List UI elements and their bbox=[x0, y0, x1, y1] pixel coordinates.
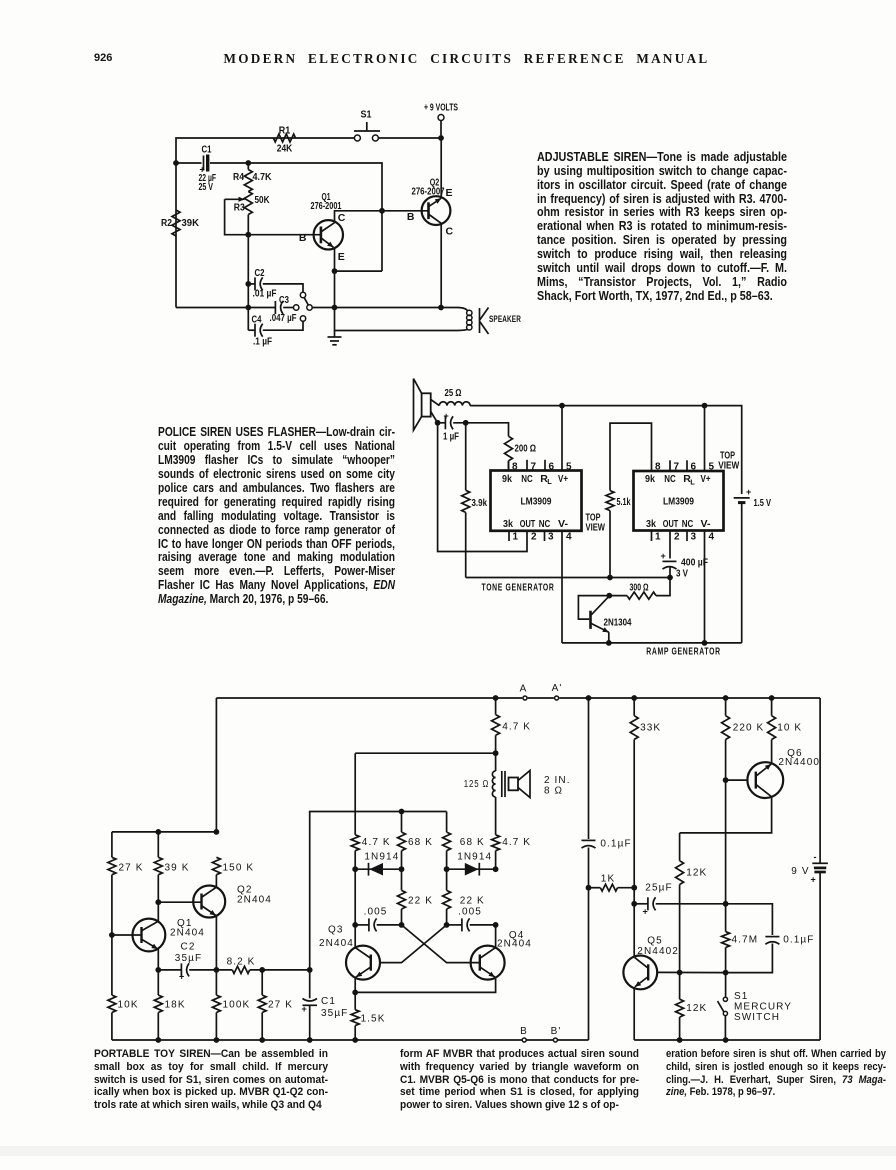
svg-text:1: 1 bbox=[513, 532, 519, 543]
svg-text:18K: 18K bbox=[165, 1000, 186, 1011]
wire cross coupling A bbox=[402, 925, 480, 963]
svg-text:+: + bbox=[302, 1004, 307, 1014]
svg-text:9 V: 9 V bbox=[791, 866, 809, 877]
U2 pin 6 bbox=[686, 460, 688, 471]
svg-text:MERCURY: MERCURY bbox=[734, 1002, 792, 1013]
svg-text:+: + bbox=[643, 907, 648, 917]
wire top rail left segment with left drop bbox=[378, 137, 441, 139]
U1 pin 4 bbox=[561, 531, 563, 643]
svg-text:-: - bbox=[814, 852, 817, 862]
svg-text:22 K: 22 K bbox=[460, 896, 485, 907]
transformer 125 ohm coil bbox=[495, 753, 497, 771]
svg-text:A': A' bbox=[552, 683, 563, 694]
wire speaker top rail bbox=[312, 307, 458, 309]
svg-text:2N404: 2N404 bbox=[237, 895, 272, 906]
wire 300 ohm to base loop bbox=[609, 595, 627, 597]
svg-text:33K: 33K bbox=[640, 723, 661, 734]
svg-text:V-: V- bbox=[558, 518, 569, 530]
svg-text:4.7 K: 4.7 K bbox=[502, 837, 531, 848]
svg-text:276-2007: 276-2007 bbox=[412, 185, 445, 197]
ground bbox=[334, 331, 336, 338]
svg-text:B: B bbox=[520, 1026, 528, 1037]
svg-text:+: + bbox=[179, 972, 184, 982]
svg-text:B: B bbox=[407, 211, 415, 223]
wire speaker bottom rail bbox=[335, 308, 459, 331]
svg-text:S1: S1 bbox=[361, 109, 372, 121]
resistor 3.9k bbox=[465, 423, 467, 491]
svg-text:25 V: 25 V bbox=[199, 181, 214, 193]
svg-text:4: 4 bbox=[566, 532, 572, 543]
resistor 4.7K left bbox=[354, 753, 356, 835]
resistor 12K upper bbox=[679, 833, 681, 861]
svg-text:A: A bbox=[520, 684, 528, 695]
resistor 200 ohm bbox=[505, 436, 513, 461]
svg-text:2N1304: 2N1304 bbox=[604, 617, 632, 629]
svg-text:6: 6 bbox=[691, 462, 697, 473]
svg-text:5: 5 bbox=[709, 462, 715, 473]
resistor 4.7K lower right bbox=[492, 835, 500, 851]
wire Q1 base row bbox=[111, 875, 113, 995]
battery 1.5V bbox=[734, 497, 750, 499]
wire Q4 emitter loop bbox=[355, 977, 495, 992]
inductor 25 ohm bbox=[431, 400, 440, 406]
transistor Q6 2N4400 bbox=[747, 762, 783, 798]
battery 9V bbox=[819, 698, 821, 863]
U2 pin 1 bbox=[651, 531, 653, 542]
capacitor C1 22uF 25V bbox=[203, 156, 205, 171]
resistor 220K bbox=[725, 698, 727, 716]
svg-text:50K: 50K bbox=[255, 194, 270, 206]
resistor 39K bbox=[157, 832, 159, 857]
svg-text:3: 3 bbox=[691, 532, 697, 543]
svg-text:B: B bbox=[299, 232, 307, 244]
wire Q4 collector bbox=[495, 925, 497, 948]
U1 pin 1 bbox=[508, 531, 510, 541]
U2 pin 2 to 400uF bbox=[669, 531, 671, 559]
svg-text:1N914: 1N914 bbox=[364, 852, 399, 863]
svg-text:39 K: 39 K bbox=[165, 863, 190, 874]
node A bbox=[523, 696, 527, 700]
svg-text:220 K: 220 K bbox=[733, 723, 765, 734]
svg-text:8.2 K: 8.2 K bbox=[227, 957, 256, 968]
svg-text:7: 7 bbox=[531, 462, 537, 473]
svg-text:LM3909: LM3909 bbox=[521, 496, 552, 508]
capacitor .005 left bbox=[354, 869, 356, 925]
resistor 5.1k bbox=[606, 491, 614, 511]
svg-text:R3: R3 bbox=[234, 202, 245, 214]
wire Q emitter to rail bbox=[608, 632, 610, 643]
svg-text:.1 µF: .1 µF bbox=[253, 336, 272, 348]
svg-text:S1: S1 bbox=[734, 991, 748, 1002]
svg-text:1.5 V: 1.5 V bbox=[754, 497, 772, 509]
wire ramp bottom rail bbox=[562, 642, 742, 644]
transistor Q2 276-2007 bbox=[422, 196, 451, 225]
svg-text:3.9k: 3.9k bbox=[472, 497, 488, 509]
transistor Q 2N1304 bbox=[589, 611, 592, 629]
resistor 8.2K bbox=[216, 969, 232, 971]
svg-text:1N914: 1N914 bbox=[457, 852, 492, 863]
svg-text:R1: R1 bbox=[279, 125, 291, 137]
capacitor .005 right bbox=[447, 924, 462, 926]
transistor Q1 2N404 bbox=[133, 919, 166, 952]
capacitor 1uF bbox=[431, 412, 438, 423]
svg-text:C2: C2 bbox=[181, 942, 196, 953]
svg-text:V+: V+ bbox=[701, 473, 711, 485]
wire Q5 base row bbox=[657, 971, 725, 973]
svg-text:E: E bbox=[338, 251, 345, 263]
node B bbox=[522, 1038, 526, 1042]
svg-text:8: 8 bbox=[655, 462, 661, 473]
U1 pin 2 OUT loop bbox=[438, 423, 527, 552]
svg-text:+: + bbox=[661, 551, 666, 561]
svg-text:12K: 12K bbox=[686, 868, 707, 879]
switch S1 bbox=[354, 135, 360, 141]
wire Q1 emitter down bbox=[157, 949, 159, 970]
resistor 4.7K top right bbox=[495, 698, 497, 715]
svg-text:+ 9 VOLTS: + 9 VOLTS bbox=[424, 102, 458, 114]
svg-text:C2: C2 bbox=[255, 267, 265, 279]
svg-text:NC: NC bbox=[539, 518, 551, 530]
svg-text:V+: V+ bbox=[558, 473, 568, 485]
capacitor 400uF 3V bbox=[663, 560, 677, 562]
running head bbox=[37, 51, 896, 67]
svg-text:35µF: 35µF bbox=[175, 953, 202, 964]
capacitor C2 35uF bbox=[158, 969, 181, 971]
U2 pin 8 loop to 5.1k bbox=[610, 423, 652, 490]
resistor 22K left bbox=[398, 890, 406, 909]
svg-text:4.7 K: 4.7 K bbox=[502, 722, 531, 733]
svg-text:24K: 24K bbox=[277, 143, 293, 155]
wire 39K to Q2 base bbox=[157, 875, 159, 903]
wire Q1 collector to 39K node bbox=[157, 902, 159, 921]
svg-text:3k: 3k bbox=[503, 518, 513, 530]
svg-text:1K: 1K bbox=[601, 874, 615, 885]
resistor 10K right bbox=[771, 698, 773, 716]
resistor 27K second bbox=[261, 970, 263, 995]
svg-text:35µF: 35µF bbox=[321, 1008, 348, 1019]
svg-text:0.1µF: 0.1µF bbox=[600, 839, 631, 850]
resistor 1.5K bbox=[351, 1010, 359, 1026]
svg-text:7: 7 bbox=[674, 462, 680, 473]
svg-text:9k: 9k bbox=[645, 473, 655, 485]
svg-text:+: + bbox=[444, 411, 449, 421]
svg-text:L: L bbox=[690, 478, 695, 487]
svg-text:12K: 12K bbox=[686, 1003, 707, 1014]
svg-text:2N404: 2N404 bbox=[319, 938, 354, 949]
svg-text:22 K: 22 K bbox=[408, 896, 433, 907]
wire 33K to Q5 bbox=[633, 888, 635, 957]
svg-text:125 Ω: 125 Ω bbox=[464, 779, 490, 790]
capacitor C1 35uF bbox=[309, 970, 311, 998]
svg-text:3: 3 bbox=[548, 532, 554, 543]
page number bbox=[94, 52, 112, 64]
wire riser to MVBR top bbox=[310, 812, 447, 970]
svg-text:6: 6 bbox=[549, 462, 555, 473]
svg-text:27 K: 27 K bbox=[119, 863, 144, 874]
node A' bbox=[555, 696, 559, 700]
wire R3 wiper to base bbox=[225, 199, 321, 234]
wire Q3 emitter to 1.5K bbox=[354, 977, 356, 992]
svg-text:OUT: OUT bbox=[663, 518, 679, 530]
svg-text:2N4400: 2N4400 bbox=[778, 757, 820, 768]
U1 pin 8 bbox=[508, 461, 510, 471]
svg-text:68 K: 68 K bbox=[408, 837, 433, 848]
svg-text:25µF: 25µF bbox=[645, 883, 672, 894]
resistor R1 24K bbox=[273, 134, 295, 142]
svg-text:LM3909: LM3909 bbox=[663, 496, 694, 508]
svg-text:4: 4 bbox=[709, 532, 715, 543]
resistor 100K bbox=[215, 970, 217, 995]
capacitor 25uF bbox=[634, 903, 648, 905]
svg-text:4.7M: 4.7M bbox=[732, 935, 759, 946]
svg-text:+: + bbox=[200, 165, 205, 175]
U2 pin 3 bbox=[686, 531, 688, 542]
speaker 2IN 8ohm bbox=[509, 778, 519, 791]
svg-text:2N404: 2N404 bbox=[170, 928, 205, 939]
svg-text:C: C bbox=[446, 226, 454, 238]
svg-text:2: 2 bbox=[674, 532, 680, 543]
svg-text:25 Ω: 25 Ω bbox=[445, 387, 462, 399]
svg-text:10K: 10K bbox=[118, 1000, 139, 1011]
svg-text:R4: R4 bbox=[233, 171, 244, 183]
wire bottom rail left bbox=[112, 1039, 522, 1041]
svg-text:SWITCH: SWITCH bbox=[734, 1012, 780, 1023]
svg-text:RAMP GENERATOR: RAMP GENERATOR bbox=[646, 646, 721, 658]
svg-text:Q5: Q5 bbox=[647, 936, 663, 947]
wire bias rail bbox=[112, 831, 216, 833]
U1 pin 7 bbox=[526, 460, 528, 471]
wire Q2 emitter to +9V bbox=[440, 138, 442, 198]
transistor Q2 2N404 bbox=[193, 886, 225, 918]
svg-text:SPEAKER: SPEAKER bbox=[489, 314, 521, 325]
svg-text:5: 5 bbox=[566, 462, 572, 473]
svg-text:39K: 39K bbox=[182, 217, 200, 229]
diode D2 1N914 bbox=[447, 868, 496, 870]
resistor 150K bbox=[212, 857, 220, 874]
svg-text:1: 1 bbox=[655, 532, 661, 543]
node B' bbox=[553, 1038, 557, 1042]
resistor 1K bbox=[589, 887, 601, 889]
speaker horn bbox=[422, 393, 431, 416]
transistor Q3 2N404 bbox=[346, 946, 380, 980]
U1 pin 6 bbox=[544, 460, 546, 471]
U2 pin 7 bbox=[669, 460, 671, 471]
wire 400uF to 300 ohm bbox=[656, 578, 670, 596]
resistor 300 ohm bbox=[627, 592, 656, 599]
resistor 18K bbox=[157, 970, 159, 995]
transistor Q1 276-2001 bbox=[314, 220, 343, 249]
svg-text:8 Ω: 8 Ω bbox=[544, 786, 563, 797]
wire divider branch bbox=[588, 698, 590, 839]
wire 150K to Q2 collector bbox=[215, 875, 217, 888]
svg-text:2N4402: 2N4402 bbox=[637, 946, 679, 957]
wire Q3 collector bbox=[354, 925, 356, 948]
svg-text:+: + bbox=[746, 487, 751, 497]
capacitor C4 .1uF bbox=[248, 329, 255, 331]
wire Q1 emitter loop bbox=[335, 247, 383, 271]
speaker coil bbox=[467, 310, 472, 315]
svg-text:TONE GENERATOR: TONE GENERATOR bbox=[482, 582, 555, 594]
svg-text:C3: C3 bbox=[279, 294, 289, 306]
svg-text:Q3: Q3 bbox=[328, 925, 344, 936]
svg-text:300 Ω: 300 Ω bbox=[630, 582, 649, 594]
svg-text:3 V: 3 V bbox=[676, 568, 688, 580]
wire tone-ramp bus bbox=[466, 577, 670, 579]
svg-text:5.1k: 5.1k bbox=[617, 496, 631, 508]
IC U1 LM3909 bbox=[491, 471, 582, 531]
resistor 68K right bbox=[446, 812, 448, 833]
wire Q6 base bbox=[726, 779, 748, 781]
resistor 33K bbox=[633, 698, 635, 716]
svg-text:R2: R2 bbox=[161, 217, 172, 229]
resistor 4.7M bbox=[725, 904, 727, 932]
mercury switch S1 bbox=[725, 973, 727, 997]
U1 pin 3 bbox=[544, 531, 546, 541]
svg-text:3k: 3k bbox=[646, 518, 656, 530]
svg-text:1 µF: 1 µF bbox=[443, 431, 459, 443]
resistor 12K lower bbox=[679, 973, 681, 1000]
wire timing loop bbox=[726, 904, 773, 935]
diode D1 1N914 bbox=[355, 868, 401, 870]
wire Q5 emitter down bbox=[633, 987, 635, 1040]
svg-text:68 K: 68 K bbox=[460, 837, 485, 848]
svg-text:150 K: 150 K bbox=[223, 863, 255, 874]
svg-text:C1: C1 bbox=[321, 996, 336, 1007]
svg-text:2 IN.: 2 IN. bbox=[544, 775, 571, 786]
wire LM3909 top rail bbox=[470, 406, 742, 494]
U2 pin 5 bbox=[704, 406, 706, 471]
wire cross coupling B bbox=[380, 925, 447, 963]
svg-text:.005: .005 bbox=[458, 907, 482, 918]
IC U2 LM3909 bbox=[634, 471, 724, 531]
wire Q2 collector to speaker bbox=[440, 223, 442, 307]
potentiometer R3 50K bbox=[244, 192, 252, 215]
capacitor 0.1uF timing bbox=[765, 936, 779, 938]
wire Q6 emitter loop bbox=[680, 797, 772, 833]
rotary switch SW wiper bbox=[307, 305, 312, 310]
svg-text:+: + bbox=[811, 875, 816, 885]
resistor R2 39K bbox=[172, 210, 180, 236]
capacitor C3 .047uF bbox=[176, 307, 275, 309]
svg-text:B': B' bbox=[551, 1026, 562, 1037]
capacitor C2 .01uF bbox=[248, 283, 255, 285]
svg-text:NC: NC bbox=[682, 518, 694, 530]
resistor 22K right bbox=[443, 890, 451, 909]
svg-text:NC: NC bbox=[521, 473, 533, 485]
svg-text:L: L bbox=[547, 477, 552, 486]
svg-text:NC: NC bbox=[664, 473, 676, 485]
svg-text:2: 2 bbox=[531, 532, 537, 543]
wire main top rail bbox=[216, 697, 522, 699]
svg-text:C1: C1 bbox=[202, 144, 212, 156]
wire MVBR upper rail bbox=[355, 752, 495, 754]
svg-text:9k: 9k bbox=[502, 473, 512, 485]
resistor 10K bbox=[111, 994, 113, 996]
resistor 68K left bbox=[401, 812, 403, 833]
wire Q1 collector row bbox=[335, 211, 429, 223]
svg-text:.005: .005 bbox=[364, 907, 388, 918]
wire second rail bbox=[176, 162, 202, 164]
resistor 27K first bbox=[111, 832, 113, 857]
svg-text:.047 µF: .047 µF bbox=[270, 312, 297, 324]
svg-text:100K: 100K bbox=[223, 1000, 251, 1011]
svg-text:1.5K: 1.5K bbox=[361, 1014, 386, 1025]
svg-text:8: 8 bbox=[512, 462, 518, 473]
svg-text:10 K: 10 K bbox=[777, 723, 802, 734]
svg-text:C: C bbox=[338, 212, 346, 224]
U2 pin 4 bbox=[704, 531, 706, 643]
svg-text:V-: V- bbox=[701, 518, 712, 530]
U1 pin 5 bbox=[561, 406, 563, 471]
svg-text:VIEW: VIEW bbox=[586, 522, 606, 534]
svg-text:VIEW: VIEW bbox=[718, 460, 739, 472]
transistor Q5 2N4402 bbox=[623, 956, 657, 990]
wire Q2 emitter down bbox=[215, 916, 217, 970]
transistor Q4 2N404 bbox=[471, 946, 505, 980]
svg-text:OUT: OUT bbox=[520, 518, 536, 530]
wire left drop to bias rail bbox=[215, 698, 217, 832]
svg-text:C4: C4 bbox=[252, 314, 262, 326]
svg-text:E: E bbox=[446, 187, 453, 199]
svg-text:.01 µF: .01 µF bbox=[253, 288, 277, 300]
svg-text:4.7K: 4.7K bbox=[253, 171, 272, 183]
svg-text:200 Ω: 200 Ω bbox=[515, 443, 537, 455]
svg-text:2N404: 2N404 bbox=[497, 939, 532, 950]
svg-text:0.1µF: 0.1µF bbox=[783, 935, 814, 946]
speaker bracket bbox=[479, 308, 481, 333]
resistor R4 4.7K bbox=[247, 163, 249, 170]
wire bottom rail right bbox=[634, 1039, 820, 1041]
svg-text:4.7 K: 4.7 K bbox=[362, 837, 391, 848]
capacitor 0.1uF divider bbox=[582, 839, 596, 841]
svg-text:27 K: 27 K bbox=[268, 1000, 293, 1011]
wire capacitor-bank vertical bbox=[247, 235, 249, 331]
